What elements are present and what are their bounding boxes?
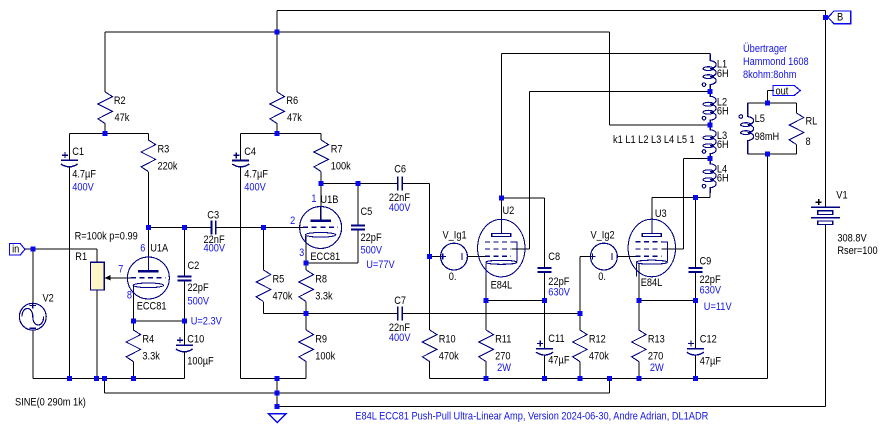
wire B+ top rail (277, 10, 825, 12)
node junction U3 plate (693, 195, 698, 200)
port out (773, 86, 800, 96)
svg-text:R10: R10 (439, 333, 456, 345)
node junction R12 top (577, 311, 582, 316)
wire R1 wiper to U1A grid (104, 277, 131, 279)
wire U2 screen entry (511, 248, 529, 250)
wire C6 drop to V_Ig1 (429, 184, 431, 257)
wire R6 node (241, 133, 322, 135)
svg-text:400V: 400V (389, 202, 411, 214)
wire V_Ig1 to U2 grid (467, 256, 489, 258)
wire drop to centre tap (609, 32, 611, 125)
wire right edge down to V1 (824, 11, 826, 208)
wire C5 bottom lead (357, 230, 359, 264)
capacitor C2 (177, 276, 191, 280)
svg-text:4.7µF: 4.7µF (244, 169, 268, 181)
wire C3 to U1B grid (216, 226, 304, 228)
node junction U1B cathode (304, 261, 309, 266)
wire mid ground rail (105, 392, 610, 394)
svg-text:2W: 2W (650, 362, 664, 374)
wire to L2-L3 centre tap (610, 124, 711, 126)
node junction L1-L2 tap (708, 89, 713, 94)
inductor L3 (702, 125, 716, 158)
wire R10 bottom stem (429, 362, 431, 379)
svg-text:98mH: 98mH (755, 131, 780, 143)
svg-text:R8: R8 (315, 273, 327, 285)
node junction C12 ground (693, 376, 698, 381)
svg-text:C3: C3 (207, 209, 219, 221)
svg-text:Übertrager: Übertrager (743, 43, 787, 55)
wire C12 top lead (694, 300, 696, 348)
wire C5 top lead (357, 184, 359, 226)
resistor R4 (126, 330, 141, 362)
potentiometer R1 wiper arrow (105, 275, 111, 281)
resistor R9 (299, 330, 314, 362)
node junction C5 top (355, 181, 360, 186)
svg-text:C6: C6 (394, 164, 406, 176)
pentode U3 (628, 219, 675, 277)
wire C6 to grid node (402, 183, 430, 185)
svg-text:R7: R7 (331, 143, 343, 155)
node junction U1A plate (146, 225, 151, 230)
svg-text:R6: R6 (286, 95, 298, 107)
svg-text:U=2.3V: U=2.3V (191, 315, 223, 327)
wire ground rail segment A (33, 377, 185, 379)
wire U1B plate lead (320, 184, 322, 221)
svg-text:R13: R13 (648, 333, 665, 345)
svg-text:2: 2 (290, 215, 295, 227)
svg-text:100µF: 100µF (187, 355, 214, 367)
wire RL top stem (796, 103, 798, 113)
wire R9 top stem (305, 314, 307, 330)
svg-text:630V: 630V (548, 286, 570, 298)
node junction ground column top (275, 376, 280, 381)
wire R13 bottom stem (638, 362, 640, 379)
svg-text:Hammond 1608: Hammond 1608 (743, 56, 809, 68)
node junction U2 cathode (484, 298, 489, 303)
resistor R5 (256, 270, 271, 302)
resistor R6 (270, 92, 285, 124)
wire R5 to cathode divider node (264, 313, 307, 315)
svg-text:3: 3 (299, 247, 304, 259)
svg-text:Rser=100: Rser=100 (837, 245, 877, 257)
wire U3 cathode node (639, 299, 695, 301)
svg-text:1: 1 (311, 193, 316, 205)
svg-text:R11: R11 (495, 333, 511, 345)
capacitor C3 (211, 220, 215, 234)
wire to V_Ig2 left (580, 256, 591, 258)
capacitor C10 (176, 337, 193, 352)
resistor R13 (632, 330, 647, 362)
wire U1A cathode lead (132, 286, 134, 321)
svg-text:0.: 0. (598, 271, 606, 283)
node junction ground column mid (275, 390, 280, 395)
node junction R6 bottom (275, 131, 280, 136)
wire V2 top lead (32, 249, 34, 303)
inductor L2 (702, 92, 716, 126)
wire drop left to mid rail (104, 378, 106, 392)
wire low return rail to V1 (277, 406, 825, 408)
wire R8 bottom stem (305, 302, 307, 314)
svg-text:100k: 100k (331, 161, 351, 173)
svg-text:out: out (776, 86, 789, 98)
node junction C10 top (182, 318, 187, 323)
svg-text:R9: R9 (315, 333, 327, 345)
wire C12 bottom lead (694, 356, 696, 379)
triode U1A (127, 257, 169, 299)
wire supply rail (105, 31, 609, 33)
voltage source V1 battery (811, 199, 840, 224)
wire C10 bottom lead (183, 352, 185, 378)
svg-text:ECC81: ECC81 (137, 300, 167, 312)
resistor R10 (422, 330, 437, 362)
svg-text:SINE(0 290m 1k): SINE(0 290m 1k) (15, 397, 86, 409)
node junction C9 bottom (693, 298, 698, 303)
wire R1 bottom lead (96, 290, 98, 378)
inductor L4 (702, 158, 716, 193)
node junction mid-rail left tee (102, 376, 107, 381)
svg-text:C9: C9 (700, 255, 712, 267)
wire R13 top stem (638, 300, 640, 330)
wire R12 node riser to V_Ig2 (579, 257, 581, 314)
wire R6 bottom stem (276, 124, 278, 134)
capacitor C7 (398, 307, 402, 321)
wire drop right to mid rail (609, 378, 611, 392)
wire U1B plate to C5 (321, 183, 358, 185)
wire R8 top stem (305, 263, 307, 270)
svg-text:6H: 6H (717, 68, 729, 80)
svg-text:2W: 2W (497, 362, 511, 374)
node junction L3-L4 tap (708, 156, 713, 161)
svg-text:R=100k p=0.99: R=100k p=0.99 (75, 230, 138, 242)
wire L1-L2 tap to U2 screen (530, 91, 711, 93)
svg-text:C12: C12 (700, 334, 717, 346)
node junction R4 ground (131, 376, 136, 381)
svg-text:R4: R4 (142, 333, 154, 345)
capacitor C11 (536, 341, 553, 356)
node junction divider (304, 311, 309, 316)
capacitor C6 (398, 177, 402, 191)
wire C11 top lead (544, 300, 546, 348)
wire R3 top stem (147, 134, 149, 141)
node junction ground column low (275, 404, 280, 409)
resistor R2 (98, 92, 113, 124)
wire R12 bottom stem (579, 362, 581, 379)
triode U1B (300, 207, 342, 249)
svg-text:C4: C4 (244, 146, 256, 158)
wire V_Ig2 to U3 grid (617, 256, 640, 258)
voltage source V2 (19, 302, 46, 330)
svg-text:U2: U2 (503, 205, 515, 217)
wire L3-L4 tap to U3 screen (683, 157, 710, 159)
svg-text:400V: 400V (72, 181, 94, 193)
wire C9 top lead (694, 198, 696, 268)
resistor R8 (299, 270, 314, 302)
node junction U1A cathode (131, 318, 136, 323)
svg-text:22pF: 22pF (188, 282, 209, 294)
svg-text:C5: C5 (361, 206, 373, 218)
svg-text:400V: 400V (244, 181, 266, 193)
svg-text:V1: V1 (836, 189, 847, 201)
wire R2 node (69, 133, 148, 135)
svg-text:308.8V: 308.8V (837, 233, 867, 245)
capacitor C9 (688, 268, 702, 272)
svg-text:V2: V2 (43, 293, 54, 305)
resistor R7 (314, 140, 329, 172)
wire C2 bottom lead (183, 280, 185, 321)
svg-text:C1: C1 (72, 146, 84, 158)
wire C8 top lead (544, 198, 546, 268)
wire secondary return riser (767, 154, 769, 379)
wire V2 bottom lead (32, 330, 34, 378)
wire secondary top (748, 102, 797, 104)
wire C10 top lead (183, 321, 185, 345)
svg-text:L5: L5 (755, 113, 765, 125)
wire C2 top lead (183, 227, 185, 276)
wire R7 top stem (320, 134, 322, 141)
port in (10, 244, 25, 255)
wire C4 top lead (240, 134, 242, 161)
svg-text:47k: 47k (287, 112, 302, 124)
svg-text:E84L: E84L (641, 277, 663, 289)
svg-text:47µF: 47µF (700, 356, 721, 368)
node junction centre tap (708, 123, 713, 128)
wire R2 bottom stem (104, 124, 106, 134)
node junction C2 top (182, 225, 187, 230)
wire C8 bottom lead (544, 272, 546, 300)
wire R1 top lead (96, 249, 98, 262)
node junction mid-rail right tee (607, 376, 612, 381)
wire R6 column riser (276, 11, 278, 33)
wire U3 screen entry (662, 248, 684, 250)
capacitor C8 (538, 268, 552, 272)
wire U2 cathode node (486, 299, 544, 301)
resistor R12 (573, 330, 588, 362)
svg-text:22pF: 22pF (361, 232, 382, 244)
svg-text:C10: C10 (187, 333, 204, 345)
node junction V_Ig1 grid (427, 254, 432, 259)
inductor L1 (702, 54, 716, 92)
wire U2 screen drop (529, 92, 531, 249)
wire RL bottom stem (796, 145, 798, 154)
wire U3 cathode lead (638, 263, 640, 300)
wire R5 top stem (263, 227, 265, 270)
node junction R2 bottom (103, 131, 108, 136)
wire C11 bottom lead (544, 356, 546, 379)
svg-text:270: 270 (648, 351, 663, 363)
svg-text:6H: 6H (717, 173, 729, 185)
svg-text:4.7µF: 4.7µF (72, 169, 96, 181)
wire R11 top stem (485, 300, 487, 330)
svg-text:8: 8 (806, 136, 811, 148)
svg-text:in: in (12, 244, 19, 256)
wire C9 bottom lead (694, 272, 696, 300)
svg-text:RL: RL (806, 116, 818, 128)
svg-text:630V: 630V (700, 285, 722, 297)
svg-text:R5: R5 (273, 273, 285, 285)
svg-text:3.3k: 3.3k (315, 291, 333, 303)
capacitor C4 (232, 152, 249, 167)
svg-text:470k: 470k (439, 351, 459, 363)
wire R12 top stem (579, 314, 581, 330)
port B (828, 11, 851, 24)
wire R2 top stem (104, 32, 106, 92)
svg-text:6H: 6H (717, 106, 729, 118)
wire U1B cathode node (306, 262, 358, 264)
capacitor C5 (351, 226, 365, 230)
svg-text:8: 8 (127, 289, 132, 301)
svg-text:U1A: U1A (150, 243, 169, 255)
wire out port stem (767, 90, 769, 103)
wire U1A plate to C3 (148, 226, 211, 228)
node junction U2 plate (499, 196, 504, 201)
wire R9 bottom stem (305, 362, 307, 379)
node junction input (30, 247, 35, 252)
node junction R6 top (275, 30, 280, 35)
wire L4 bottom to U3 plate (652, 197, 710, 199)
node junction U3 cathode (636, 298, 641, 303)
wire U1A plate lead (147, 227, 149, 271)
potentiometer R1 (90, 262, 104, 290)
wire ground column (276, 378, 278, 406)
svg-text:220k: 220k (158, 161, 178, 173)
wire R4 top stem (132, 321, 134, 330)
svg-text:R1: R1 (75, 251, 87, 263)
svg-text:C11: C11 (548, 333, 564, 345)
node junction R1 ground (94, 376, 99, 381)
wire C1 top lead (68, 134, 70, 161)
svg-text:k1 L1 L2 L3 L4 L5 1: k1 L1 L2 L3 L4 L5 1 (613, 134, 695, 146)
svg-text:U1B: U1B (320, 194, 338, 206)
svg-text:400V: 400V (389, 332, 411, 344)
capacitor C1 (61, 152, 78, 167)
svg-text:V_Ig2: V_Ig2 (591, 229, 615, 241)
node junction U1B plate (319, 181, 324, 186)
wire V1 bottom lead (824, 225, 826, 407)
node junction R5 top (261, 225, 266, 230)
wire C5 node to C6 (358, 183, 398, 185)
pentode U2 (478, 219, 525, 277)
node junction B port (823, 15, 828, 20)
wire U1B cathode lead (305, 236, 307, 263)
svg-text:470k: 470k (273, 291, 293, 303)
svg-text:270: 270 (495, 351, 510, 363)
node junction C8 bottom (542, 298, 547, 303)
svg-text:6H: 6H (717, 139, 729, 151)
svg-text:400V: 400V (204, 243, 226, 255)
wire R6 top stem (276, 32, 278, 92)
wire U2 plate to C8 (501, 197, 544, 199)
svg-text:R2: R2 (114, 95, 126, 107)
wire C7 to R12 node (402, 313, 580, 315)
wire L4 stub (709, 193, 711, 198)
svg-text:47k: 47k (115, 112, 130, 124)
wire to out port (768, 89, 774, 91)
svg-text:U=77V: U=77V (366, 259, 395, 271)
wire divider node to C7 (306, 313, 398, 315)
wire R11 bottom stem (485, 362, 487, 379)
resistor R3 (141, 140, 156, 172)
node junction secondary bottom (765, 151, 770, 156)
node junction C11 ground (542, 376, 547, 381)
svg-text:0.: 0. (449, 271, 457, 283)
node junction C1 ground (67, 376, 72, 381)
wire U1A cathode node (133, 320, 184, 322)
wire ground rail segment C (430, 377, 768, 379)
wire C1 bottom lead (68, 167, 70, 378)
wire U2 plate column (500, 54, 502, 234)
resistor R11 (479, 330, 494, 362)
svg-text:500V: 500V (188, 295, 210, 307)
svg-text:3.3k: 3.3k (142, 351, 160, 363)
wire R5 bottom stem (263, 302, 265, 314)
wire R7 bottom stem (320, 172, 322, 184)
svg-text:U=11V: U=11V (704, 301, 732, 313)
svg-text:V_Ig1: V_Ig1 (443, 229, 467, 241)
wire ground rail segment B (241, 377, 307, 379)
node junction R11 ground (484, 376, 489, 381)
voltage source V_Ig2 (590, 243, 618, 270)
svg-text:47µF: 47µF (548, 355, 569, 367)
svg-text:E84L ECC81 Push-Pull Ultra-Lin: E84L ECC81 Push-Pull Ultra-Linear Amp, V… (355, 411, 708, 423)
svg-text:470k: 470k (589, 351, 609, 363)
svg-text:R12: R12 (589, 333, 606, 345)
capacitor C12 (687, 341, 704, 356)
node junction R13 ground (636, 376, 641, 381)
wire U3 screen drop (682, 158, 684, 249)
svg-text:R3: R3 (158, 143, 170, 155)
node junction secondary top (765, 101, 770, 106)
wire to V_Ig1 left (430, 256, 441, 258)
wire U3 plate lead (651, 198, 653, 234)
svg-text:U3: U3 (655, 208, 667, 220)
ground (269, 414, 286, 423)
wire R3 bottom stem (147, 172, 149, 227)
svg-text:C2: C2 (188, 260, 200, 272)
svg-text:8kohm:8ohm: 8kohm:8ohm (743, 69, 796, 81)
svg-text:6: 6 (140, 243, 145, 255)
svg-text:C8: C8 (548, 251, 560, 263)
svg-text:ECC81: ECC81 (310, 251, 340, 263)
svg-text:E84L: E84L (491, 279, 513, 291)
svg-text:7: 7 (118, 264, 123, 276)
svg-text:100k: 100k (315, 351, 335, 363)
wire secondary bottom (748, 153, 797, 155)
wire R10 top stem (429, 257, 431, 330)
inductor L5 (739, 103, 754, 154)
svg-text:B: B (837, 12, 843, 24)
wire in port to R1 (25, 248, 98, 250)
wire U2 plate to L1 top (501, 53, 710, 55)
resistor RL (789, 113, 804, 145)
svg-text:500V: 500V (361, 245, 383, 257)
node junction R12 ground (577, 376, 582, 381)
svg-text:C7: C7 (394, 295, 406, 307)
wire U2 cathode lead (485, 264, 487, 301)
wire C4 bottom lead (240, 167, 242, 378)
voltage source V_Ig1 (440, 243, 468, 270)
wire R4 bottom stem (132, 362, 134, 379)
